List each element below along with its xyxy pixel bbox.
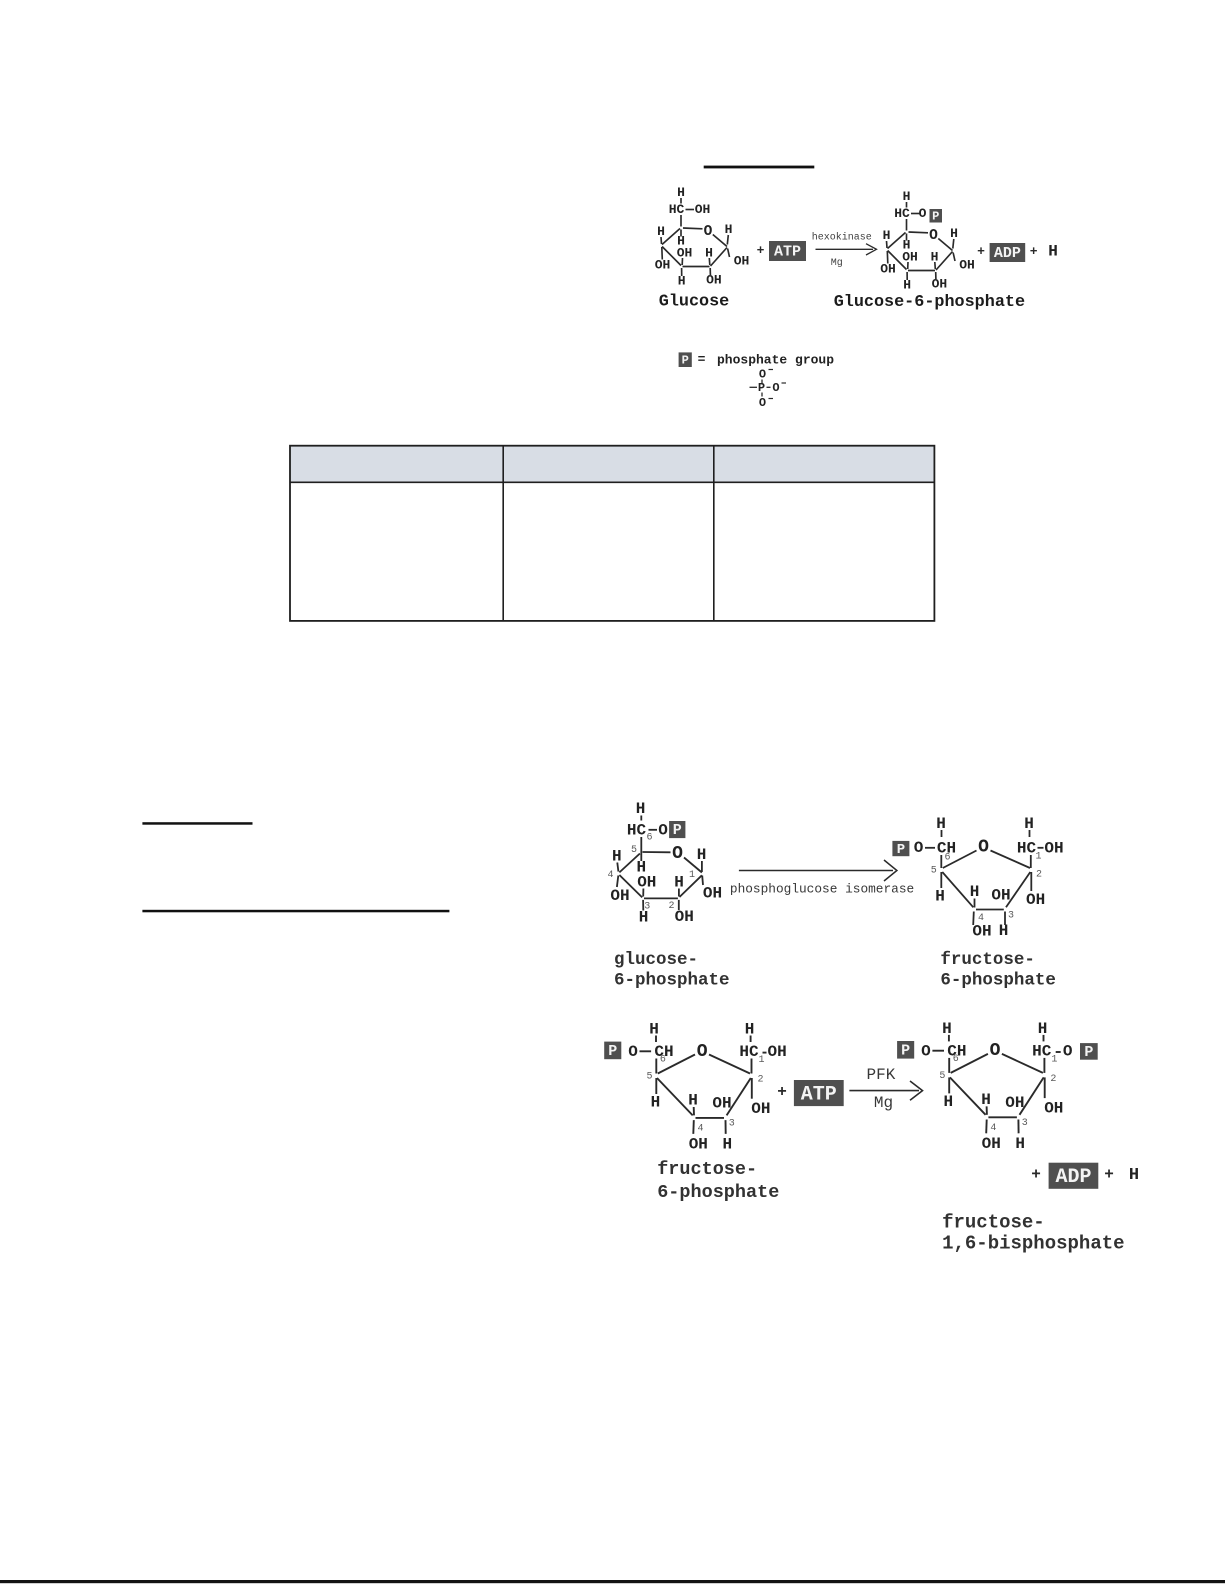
carbon number 1	[1051, 1054, 1057, 1065]
bond H-C6	[906, 202, 908, 208]
svg-text:1: 1	[689, 870, 695, 881]
plus sign before ATP	[757, 243, 765, 258]
svg-text:6-phosphate: 6-phosphate	[657, 1182, 779, 1203]
ring bond C5-O	[643, 851, 671, 853]
enzyme label hexokinase	[812, 232, 872, 244]
svg-text:P: P	[1084, 1044, 1093, 1061]
svg-text:6: 6	[660, 1055, 666, 1066]
svg-text:H: H	[903, 189, 911, 204]
ring O atom	[704, 224, 713, 240]
ring O atom	[978, 838, 989, 858]
OH group inner	[902, 250, 918, 265]
left bond dash of P	[750, 386, 758, 388]
ADP box	[990, 243, 1026, 262]
svg-text:OH: OH	[655, 258, 671, 273]
H atom below C3	[722, 1136, 732, 1154]
molecule: glucose-6-phosphate (diagram 2)	[607, 800, 722, 927]
svg-text:OH: OH	[768, 1043, 787, 1061]
bond C6-O6	[649, 829, 658, 831]
OH group below C2	[706, 273, 722, 288]
svg-text:hexokinase: hexokinase	[812, 232, 872, 244]
bond H-C6	[941, 830, 943, 837]
svg-text:H: H	[1048, 243, 1058, 261]
H atom top right	[745, 1021, 755, 1039]
bond H-C6	[655, 1036, 657, 1043]
long answer rule	[142, 910, 449, 913]
caption fructose- (line 1)	[942, 1212, 1045, 1234]
bond innerOH-C3	[642, 889, 644, 897]
OH group below C4	[982, 1135, 1001, 1153]
ring O atom	[697, 1042, 708, 1062]
svg-text:HC: HC	[1017, 840, 1037, 858]
ring bond O-C2	[1002, 1054, 1043, 1073]
bond C1-OH	[953, 253, 955, 262]
svg-text:4: 4	[697, 1123, 703, 1134]
svg-text:4: 4	[990, 1123, 996, 1134]
bond O6-C6	[640, 1050, 652, 1052]
table column divider 2	[713, 446, 715, 621]
H atom below C5	[651, 1094, 661, 1112]
carbon number 6	[660, 1055, 666, 1066]
svg-text:P: P	[673, 822, 682, 839]
bond C2-OH (bottom)	[709, 268, 711, 275]
plus sign before ADP	[977, 244, 985, 259]
H atom inner right	[931, 250, 939, 265]
svg-text:O: O	[1063, 1042, 1073, 1060]
H atom inner right	[705, 246, 713, 261]
svg-text:HC: HC	[1032, 1042, 1052, 1060]
HC group (C1)	[1017, 840, 1037, 858]
svg-text:OH: OH	[734, 254, 750, 269]
O1 atom	[1063, 1042, 1073, 1060]
OH group inner	[637, 874, 656, 892]
phosphate P box on C1	[1080, 1043, 1098, 1061]
OH group on C6	[695, 202, 711, 217]
svg-text:Glucose: Glucose	[659, 293, 730, 312]
bond C6-C5	[948, 1058, 950, 1073]
OH group below C2	[932, 277, 948, 292]
H atom inner right	[674, 874, 684, 892]
ring O atom	[929, 228, 938, 244]
P atom	[758, 381, 765, 395]
svg-text:=: =	[698, 352, 706, 367]
ring bond C2-C3	[1006, 872, 1030, 907]
enzyme label phosphoglucose isomerase	[730, 882, 914, 897]
bond H-C6	[680, 198, 682, 204]
ring bond O-C2	[709, 1055, 750, 1074]
bond C5-H	[948, 1077, 950, 1093]
HC group (C6)	[627, 822, 647, 840]
ring bond C3-C4	[888, 251, 907, 270]
carbon number 1	[689, 870, 695, 881]
svg-text:HC: HC	[669, 202, 685, 217]
bond O-P (top)	[761, 380, 763, 384]
OH group on C1 (right)	[734, 254, 750, 269]
OH group on C4 (left)	[610, 887, 629, 905]
H atom inner below C5	[903, 238, 911, 253]
caption fructose- (line 1)	[657, 1159, 757, 1180]
short answer rule	[142, 822, 252, 825]
OH group on C1	[1044, 840, 1063, 858]
svg-text:H: H	[688, 1092, 698, 1110]
bond H-C1	[953, 239, 954, 249]
O- top of phosphate	[759, 368, 773, 382]
svg-text:OH: OH	[991, 887, 1010, 905]
bond C5-H (inner)	[906, 234, 908, 241]
svg-text:O: O	[697, 1042, 708, 1062]
svg-text:5: 5	[631, 845, 637, 856]
svg-text:phosphoglucose isomerase: phosphoglucose isomerase	[730, 882, 914, 897]
bond C4-OH	[617, 876, 618, 888]
H atom top left	[942, 1020, 952, 1038]
reaction arrow 2	[739, 860, 897, 881]
HC group (C6)	[894, 206, 910, 221]
ring bond C2-C3	[908, 270, 935, 272]
bond C4-OH	[886, 251, 889, 264]
O6 atom	[921, 1042, 931, 1060]
svg-text:OH: OH	[1044, 1099, 1063, 1117]
bond C1-OH dash	[1038, 847, 1044, 849]
bond innerH-C2	[678, 889, 680, 897]
bond C6-C5	[940, 855, 942, 868]
svg-text:H: H	[1129, 1166, 1139, 1185]
svg-text:H: H	[651, 1094, 661, 1112]
svg-text:OH: OH	[677, 246, 693, 261]
ring O atom	[990, 1041, 1001, 1061]
svg-text:H: H	[639, 909, 649, 927]
bond C4-OH (bottom)	[692, 1120, 695, 1134]
bond C3-H (bottom)	[642, 900, 644, 911]
OH group on C1 (right)	[703, 885, 722, 903]
bond H-C4	[660, 237, 663, 244]
ring O atom	[672, 844, 683, 864]
CH group (C6)	[654, 1043, 673, 1061]
molecule: fructose-6-phosphate (diagram 2)	[892, 815, 1063, 941]
svg-text:H: H	[677, 185, 685, 200]
ring bond C5-O	[658, 1055, 695, 1074]
bond O6-C6	[925, 847, 935, 849]
svg-text:O: O	[914, 839, 924, 857]
page bottom border rule	[0, 1580, 1225, 1583]
H atom below C3	[999, 922, 1009, 940]
svg-text:2: 2	[668, 901, 674, 912]
svg-text:OH: OH	[982, 1135, 1001, 1153]
H atom below C5	[943, 1093, 953, 1111]
caption 6-phosphate (line 2)	[940, 971, 1056, 991]
reaction arrow 1	[816, 244, 877, 255]
ring bond C3-C4	[988, 1116, 1017, 1118]
carbon number 1	[1035, 852, 1041, 863]
svg-text:+: +	[1030, 244, 1038, 259]
svg-text:OH: OH	[637, 874, 656, 892]
svg-text:OH: OH	[610, 887, 629, 905]
O- right of phosphate	[772, 381, 786, 395]
ring bond C4-C5	[888, 233, 906, 249]
H atom on C4 (upper-left)	[883, 228, 891, 243]
bond C1-OH dash	[763, 1052, 767, 1054]
bond C3-H (bottom)	[906, 272, 908, 280]
svg-text:H: H	[950, 226, 958, 241]
svg-text:H: H	[678, 274, 686, 289]
svg-text:O: O	[759, 396, 766, 410]
svg-text:OH: OH	[932, 277, 948, 292]
svg-text:H: H	[1015, 1135, 1025, 1153]
ring bond O-C1	[684, 858, 702, 873]
bond C6-C5-H vertical	[640, 837, 642, 861]
OH group below C2	[675, 908, 694, 926]
H atom on C1 (upper-right)	[950, 226, 958, 241]
ATP box	[794, 1080, 844, 1106]
carbon number 1	[758, 1055, 764, 1066]
caption fructose- (line 1)	[940, 950, 1035, 970]
CH group (C6)	[937, 840, 956, 858]
bond C6-C5	[906, 219, 908, 231]
H atom top (C6)	[636, 800, 646, 818]
HC group (C1)	[1032, 1042, 1052, 1060]
svg-text:H: H	[903, 278, 911, 293]
H atom (C6 top)	[903, 189, 911, 204]
ring bond C2-C3	[644, 897, 678, 899]
phosphate P box on C6	[669, 821, 685, 839]
carbon number 4	[697, 1123, 703, 1134]
bond C2-OH	[751, 1078, 753, 1099]
bond C1-OH	[701, 876, 704, 886]
H atom below C3	[639, 909, 649, 927]
enzyme label PFK	[867, 1066, 896, 1084]
svg-text:O: O	[704, 224, 713, 240]
svg-text:H: H	[999, 922, 1009, 940]
H atom below C3	[1015, 1135, 1025, 1153]
svg-text:OH: OH	[751, 1100, 770, 1118]
legend equals sign	[698, 352, 706, 367]
carbon number 2	[668, 901, 674, 912]
svg-text:6: 6	[646, 833, 652, 844]
H atom inner below C5	[677, 234, 685, 249]
svg-text:H: H	[657, 224, 665, 239]
svg-text:OH: OH	[972, 923, 991, 941]
caption 1,6-bisphosphate (line 2)	[942, 1233, 1124, 1255]
plus sign after ADP	[1104, 1166, 1114, 1184]
bond C6-O6	[911, 213, 920, 215]
plus sign after ADP	[1030, 244, 1038, 259]
svg-text:HC: HC	[739, 1043, 759, 1061]
svg-text:OH: OH	[689, 1136, 708, 1154]
svg-text:P: P	[608, 1043, 617, 1060]
phosphate ion structure	[750, 368, 787, 411]
carbon number 2	[1036, 870, 1042, 881]
svg-text:5: 5	[939, 1071, 945, 1082]
svg-text:HC: HC	[894, 206, 910, 221]
svg-text:4: 4	[978, 913, 984, 924]
svg-text:O: O	[919, 206, 927, 221]
OH group below C2	[1044, 1099, 1063, 1117]
OH group below C2	[751, 1100, 770, 1118]
legend text phosphate group	[717, 353, 834, 368]
bond O6-C6	[932, 1050, 944, 1052]
svg-text:ATP: ATP	[774, 244, 801, 261]
svg-text:+: +	[777, 1083, 787, 1101]
bond C4-OH	[661, 247, 664, 260]
svg-text:2: 2	[757, 1075, 763, 1086]
OH group below C2	[1026, 891, 1045, 909]
svg-text:H: H	[636, 800, 646, 818]
svg-text:O: O	[759, 368, 766, 382]
svg-text:H: H	[943, 1093, 953, 1111]
ring bond C1-C2	[936, 252, 953, 271]
ring bond C2-C3	[727, 1078, 751, 1115]
ring bond O-C1	[938, 239, 952, 251]
phosphate P box on C6	[604, 1042, 621, 1060]
svg-text:HC: HC	[627, 822, 647, 840]
ring bond C1-C2	[711, 248, 728, 267]
svg-text:P: P	[932, 209, 939, 223]
svg-text:OH: OH	[695, 202, 711, 217]
legend P box	[679, 352, 692, 367]
carbon number 3	[1022, 1118, 1028, 1129]
OH group inner (above C3)	[1005, 1094, 1024, 1112]
ADP box	[1049, 1163, 1099, 1189]
bond H-C1	[750, 1036, 752, 1043]
svg-text:H: H	[970, 883, 980, 901]
OH group inner (above C3)	[712, 1095, 731, 1113]
svg-text:H: H	[883, 228, 891, 243]
bond C5-H	[940, 872, 942, 888]
plus sign before ATP	[777, 1083, 787, 1101]
bond C1-OH	[728, 249, 730, 258]
bond H-C1	[727, 235, 728, 245]
svg-text:4: 4	[607, 870, 613, 881]
ring bond C2-C3	[1020, 1077, 1044, 1114]
carbon number 4	[978, 913, 984, 924]
OH group below C4	[689, 1136, 708, 1154]
phosphate P box on C6	[897, 1041, 914, 1059]
bond innerH-C4	[974, 899, 976, 908]
bond C2-OH (bottom)	[678, 900, 680, 910]
ring bond C5-O	[909, 231, 929, 234]
svg-text:OH: OH	[712, 1095, 731, 1113]
svg-text:OH: OH	[703, 885, 722, 903]
H atom inner (above C4)	[981, 1091, 991, 1109]
svg-text:PFK: PFK	[867, 1066, 896, 1084]
table header row fill	[290, 446, 934, 483]
H atom inner (above C4)	[970, 883, 980, 901]
svg-text:6-phosphate: 6-phosphate	[940, 971, 1056, 991]
reaction arrow 3	[849, 1081, 922, 1100]
ring bond O-C1	[713, 235, 727, 247]
ring bond C4-C5	[950, 1077, 986, 1114]
bond innerOH-C3	[681, 258, 683, 265]
molecule: fructose-1,6-bisphosphate (diagram 3)	[897, 1020, 1098, 1153]
bond P-O (right)	[767, 386, 771, 388]
svg-text:OH: OH	[880, 262, 896, 277]
bond C5-H (inner)	[680, 230, 682, 237]
carbon number 4	[607, 870, 613, 881]
OH group inner	[677, 246, 693, 261]
svg-text:fructose-: fructose-	[940, 950, 1035, 970]
bond innerH-C4	[986, 1106, 988, 1114]
bond C1-C2	[1043, 1058, 1045, 1073]
O6 atom	[919, 206, 927, 221]
molecule: glucose-6-phosphate (product)	[880, 189, 975, 293]
svg-text:6: 6	[944, 853, 950, 864]
carbon number 2	[1050, 1074, 1056, 1085]
svg-text:OH: OH	[675, 908, 694, 926]
H atom below C5	[935, 888, 945, 906]
svg-text:O: O	[658, 822, 668, 840]
H ion product	[1129, 1166, 1139, 1185]
bond H-C1	[1043, 1035, 1045, 1042]
svg-text:6: 6	[953, 1054, 959, 1065]
svg-text:O: O	[978, 838, 989, 858]
svg-text:P: P	[901, 1042, 910, 1059]
svg-text:O: O	[628, 1043, 638, 1061]
svg-text:fructose-: fructose-	[942, 1212, 1045, 1234]
HC group (C1)	[739, 1043, 759, 1061]
bond innerH-C2	[708, 258, 711, 265]
svg-text:O: O	[990, 1041, 1001, 1061]
top heading underline rule	[704, 166, 815, 169]
bond C6-C5	[680, 215, 682, 227]
bond H-C1	[701, 861, 703, 872]
ring bond C3-C4	[696, 1117, 725, 1119]
svg-text:O: O	[772, 381, 779, 395]
carbon number 5	[931, 866, 937, 877]
molecule: fructose-6-phosphate (diagram 3)	[604, 1021, 787, 1154]
ring bond O-C2	[991, 851, 1031, 869]
carbon number 5	[646, 1072, 652, 1083]
molecule: glucose (reactant)	[655, 185, 750, 289]
H atom inner below C5	[636, 859, 646, 877]
OH group on C1 (right)	[959, 258, 975, 273]
bond C2-OH	[1030, 872, 1032, 891]
svg-text:3: 3	[729, 1118, 735, 1129]
svg-text:ADP: ADP	[1055, 1166, 1091, 1189]
ring bond C3-C4	[662, 247, 681, 266]
H atom top right	[1024, 815, 1034, 833]
ATP box	[769, 241, 806, 261]
bond C1-C2	[751, 1059, 753, 1074]
plus sign before ADP	[1031, 1166, 1041, 1184]
svg-text:1: 1	[758, 1055, 764, 1066]
OH group inner (above C3)	[991, 887, 1010, 905]
carbon number 4	[990, 1123, 996, 1134]
bond C2-OH	[1044, 1077, 1046, 1098]
bond H-C6	[948, 1035, 950, 1042]
carbon number 6	[646, 833, 652, 844]
empty 3-column table	[290, 446, 934, 621]
svg-text:P: P	[897, 842, 905, 858]
H atom on C1 (upper-right)	[725, 222, 733, 237]
svg-text:H: H	[942, 1020, 952, 1038]
carbon number 2	[757, 1075, 763, 1086]
caption 6-phosphate (line 2)	[657, 1182, 779, 1203]
bond C3-H (bottom)	[1017, 1120, 1019, 1134]
svg-text:2: 2	[1050, 1074, 1056, 1085]
svg-text:+: +	[1104, 1166, 1114, 1184]
bond C2-OH (bottom)	[935, 272, 937, 279]
H atom inner (above C4)	[688, 1092, 698, 1110]
OH group on C4 (left)	[655, 258, 671, 273]
H atom on C4 (upper-left)	[612, 848, 622, 866]
carbon number 6	[953, 1054, 959, 1065]
svg-text:H: H	[649, 1021, 659, 1039]
bond H-C4	[617, 863, 618, 872]
H ion product	[1048, 243, 1058, 261]
bond innerH-C4	[693, 1107, 695, 1115]
O6 atom	[628, 1043, 638, 1061]
svg-text:glucose-: glucose-	[614, 950, 698, 970]
H atom top left	[936, 815, 946, 833]
